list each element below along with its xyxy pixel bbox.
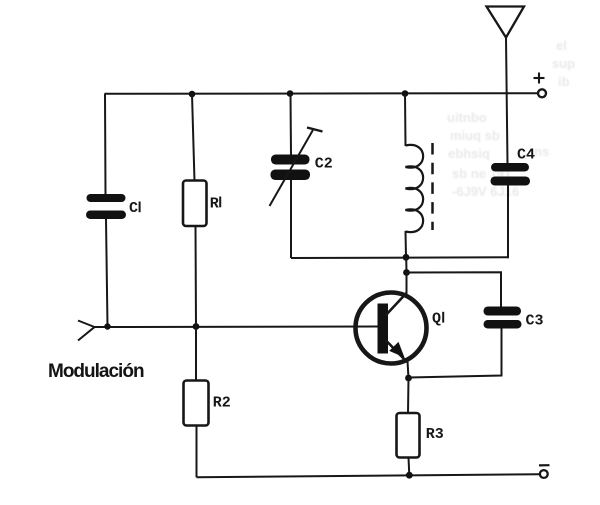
wire: R1 to base node	[195, 226, 198, 327]
node: rail/L1 junction	[402, 90, 409, 97]
capacitor C3	[484, 307, 522, 329]
bottom rail wire	[197, 474, 540, 477]
capacitor C1	[86, 194, 126, 219]
svg-text:uitnbo: uitnbo	[447, 110, 487, 125]
node: rail/C2 junction	[287, 90, 294, 97]
wire: C2 to tank bottom	[290, 180, 292, 258]
wire: C4 to tank bottom corner	[507, 186, 509, 259]
wire: collector node to transistor	[406, 273, 408, 295]
svg-text:-6J9V 6J16: -6J9V 6J16	[452, 184, 519, 199]
wire: rail to C2	[290, 94, 293, 156]
wire: emitter node to R3	[407, 378, 410, 414]
svg-text:ns: ns	[534, 144, 549, 159]
node: emitter junction	[405, 375, 412, 382]
node: R1/R2 base junction	[193, 323, 200, 330]
svg-text:el: el	[556, 38, 567, 53]
node: collector junction	[403, 269, 410, 276]
svg-text:miuq sb: miuq sb	[450, 128, 500, 143]
capacitor C4	[491, 163, 531, 186]
wire: collector node to C3	[407, 272, 502, 307]
svg-text:C3: C3	[526, 313, 544, 330]
antenna	[487, 7, 525, 38]
capacitor C2 (variable)	[270, 128, 323, 207]
wire: base line (modulation)	[95, 326, 379, 329]
inductor L1 coil	[406, 145, 424, 232]
wire: base node to R2	[195, 327, 197, 382]
wire: C3 to emitter node	[409, 329, 502, 378]
node: modulation/C1 junction	[104, 323, 110, 329]
inductor core dashed line	[431, 143, 434, 230]
svg-text:C2: C2	[315, 156, 333, 173]
svg-text:Modulación: Modulación	[48, 361, 144, 382]
resistor R1	[183, 181, 207, 227]
wire: left drop to C1	[104, 94, 107, 195]
svg-text:R: R	[210, 195, 219, 212]
svg-text:Q: Q	[432, 311, 441, 328]
wire: coil to tank bottom	[405, 231, 408, 258]
svg-text:ib: ib	[558, 74, 570, 89]
wire: R2 to bottom rail	[196, 426, 198, 478]
wire: tank bottom to collector node	[405, 257, 407, 272]
plus terminal	[534, 73, 547, 98]
svg-text:C4: C4	[517, 147, 535, 164]
wire: R3 to bottom rail	[408, 458, 411, 476]
minus terminal	[539, 465, 550, 478]
top supply rail wire	[105, 92, 538, 95]
svg-text:C: C	[129, 200, 138, 217]
wire: C1 to modulation node	[106, 219, 108, 327]
wire: rail to coil	[404, 94, 407, 147]
svg-text:ebhsiq: ebhsiq	[448, 146, 490, 161]
svg-text:R2: R2	[213, 395, 231, 412]
svg-text:sup: sup	[552, 56, 575, 71]
tank bottom wire	[291, 256, 508, 259]
bleed-through ghost text	[0, 0, 1, 1]
node: rail/R1 junction	[189, 91, 196, 98]
transistor Q1	[356, 293, 427, 364]
wire: emitter to node	[408, 361, 409, 379]
modulation input arrow	[78, 321, 95, 341]
svg-text:R3: R3	[426, 426, 444, 443]
resistor R3	[397, 413, 420, 458]
node: bottom rail junction	[406, 472, 413, 479]
wire: antenna down through rail to C4	[506, 38, 508, 165]
node: tank bottom junction	[403, 254, 410, 261]
resistor R2	[184, 381, 209, 426]
wire: rail to R1	[192, 94, 195, 181]
